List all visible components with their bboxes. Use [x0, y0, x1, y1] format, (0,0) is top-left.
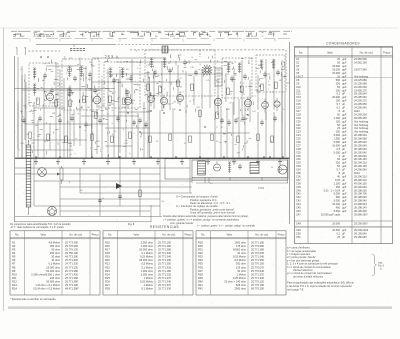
- svg-text:R41: R41: [198, 283, 203, 287]
- svg-text:R30: R30: [198, 244, 203, 248]
- svg-text:24.771.330: 24.771.330: [65, 262, 79, 266]
- resistor R15: [29, 132, 32, 139]
- svg-text:Grande alternância selectivité: Grande alternância selectivité máxima; p…: [163, 214, 249, 218]
- svg-text:R24: R24: [105, 272, 110, 276]
- svg-text:C3: C3: [296, 64, 300, 68]
- svg-text:26.771.230: 26.771.230: [158, 272, 172, 276]
- capacitor C13: [230, 77, 234, 79]
- svg-text:200: 200: [89, 62, 92, 64]
- svg-text:20 ohm + 240 ohm: 20 ohm + 240 ohm: [224, 280, 246, 284]
- resistor R12: [241, 86, 244, 93]
- svg-text:C28: C28: [296, 147, 301, 151]
- svg-text:5.000: 5.000: [334, 209, 341, 213]
- svg-text:49.095.250: 49.095.250: [354, 116, 367, 120]
- svg-text:0,5 Mohm: 0,5 Mohm: [234, 258, 246, 262]
- svg-text:Preço: Preço: [383, 50, 391, 54]
- resistor R3: [69, 100, 72, 107]
- resistor R14: [275, 82, 278, 89]
- capacitor C3: [73, 77, 77, 79]
- svg-text:C37: C37: [296, 178, 301, 182]
- svg-text:1 Mohm: 1 Mohm: [144, 283, 153, 287]
- capacitor C11: [183, 61, 187, 63]
- coil L1a: [33, 67, 36, 69]
- svg-text:50 ohm: 50 ohm: [51, 255, 60, 259]
- svg-text:µF: µF: [342, 147, 345, 151]
- tube V4: [148, 96, 155, 103]
- svg-text:µµF: µµF: [342, 68, 347, 72]
- svg-text:2.000 ohm: 2.000 ohm: [141, 240, 153, 244]
- resistor R23: [189, 136, 192, 143]
- svg-text:8: 8: [69, 182, 70, 184]
- page bottom edge band: [8, 306, 392, 309]
- svg-text:R42: R42: [198, 287, 203, 291]
- svg-text:µµF: µµF: [342, 85, 347, 89]
- svg-text:25.750.196: 25.750.196: [65, 251, 79, 255]
- svg-text:R35: R35: [198, 262, 203, 266]
- svg-text:R4: R4: [12, 251, 16, 255]
- svg-text:µµF: µµF: [342, 206, 347, 210]
- svg-text:C20: C20: [296, 119, 301, 123]
- svg-text:50000 ohm: 50000 ohm: [233, 248, 246, 252]
- svg-text:5,7: 5,7: [336, 168, 340, 172]
- svg-text:C36: C36: [296, 175, 301, 179]
- rectifier tube V11: [214, 164, 221, 171]
- svg-text:25.771.280: 25.771.280: [251, 248, 265, 252]
- svg-text:No.: No.: [108, 233, 112, 237]
- capacitor C27: [234, 119, 238, 121]
- svg-text:25.771.180: 25.771.180: [158, 269, 172, 273]
- svg-text:µF: µF: [342, 109, 345, 113]
- capacitor C9: [153, 71, 157, 73]
- svg-text:Voir bobinag.: Voir bobinag.: [354, 123, 369, 127]
- svg-text:k: k: [134, 133, 135, 135]
- svg-text:C50: C50: [296, 232, 301, 236]
- svg-text:C42: C42: [296, 195, 301, 199]
- svg-text:RESISTENCIAS: RESISTENCIAS: [150, 225, 179, 229]
- svg-text:Para a significação das indica: Para a significação das indicações autom…: [287, 281, 355, 285]
- svg-text:250: 250: [336, 161, 341, 165]
- svg-text:20.000: 20.000: [332, 95, 340, 99]
- svg-text:No. de cód.: No. de cód.: [69, 233, 83, 237]
- svg-text:3: 3: [34, 103, 35, 105]
- svg-text:Voir bobinag.: Voir bobinag.: [354, 126, 369, 130]
- long wiring verticals: [18, 57, 282, 158]
- svg-text:25.770.080: 25.770.080: [251, 244, 265, 248]
- svg-text:R17: R17: [105, 248, 110, 252]
- svg-text:25.770.040: 25.770.040: [251, 269, 265, 273]
- resistor R29: [216, 112, 219, 119]
- svg-text:28.196.140: 28.196.140: [354, 157, 367, 161]
- strip dark blobs: [16, 32, 287, 35]
- power unit lower rails: [192, 180, 288, 182]
- svg-text:65.000 ohm: 65.000 ohm: [139, 258, 153, 262]
- svg-text:2704: 2704: [258, 186, 264, 190]
- capacitor C19: [84, 123, 88, 125]
- svg-text:2.000 ohms/5.000 1 ohm: 2.000 ohms/5.000 1 ohm: [31, 272, 60, 276]
- svg-text:25.771.180: 25.771.180: [158, 244, 172, 248]
- svg-text:28.198.140: 28.198.140: [354, 206, 367, 210]
- svg-text:6924: 6924: [354, 109, 360, 113]
- svg-text:28.198.700: 28.198.700: [354, 192, 367, 196]
- svg-text:R12: R12: [12, 280, 17, 284]
- svg-text:25.770.100: 25.770.100: [251, 262, 265, 266]
- svg-text:* Resistencias a escolher em: * Resistencias a escolher em derivação.: [10, 297, 56, 301]
- svg-text:R7: R7: [12, 262, 16, 266]
- svg-text:50.000 ohm: 50.000 ohm: [139, 248, 153, 252]
- coil L5a: [227, 62, 230, 64]
- tone capacitor C40: [118, 195, 122, 197]
- svg-text:µµF: µµF: [342, 130, 347, 134]
- condensadores rows: [296, 57, 369, 239]
- capacitor C25: [220, 119, 224, 121]
- svg-text:R3: R3: [12, 248, 16, 252]
- svg-text:C32: C32: [296, 161, 301, 165]
- svg-text:µµF: µµF: [342, 116, 347, 120]
- svg-text:300 ohm: 300 ohm: [236, 262, 246, 266]
- svg-text:25.771.390: 25.771.390: [65, 283, 79, 287]
- page top edge: [0, 27, 398, 29]
- svg-text:0,25 Mohm: 0,25 Mohm: [140, 280, 153, 284]
- svg-text:25.771.330: 25.771.330: [158, 287, 172, 291]
- svg-text:µµF: µµF: [342, 71, 347, 75]
- svg-text:2: 2: [96, 115, 97, 117]
- capacitor C23: [138, 119, 142, 121]
- svg-text:µF: µF: [342, 92, 345, 96]
- svg-text:25.773.380: 25.773.380: [65, 269, 79, 273]
- svg-text:µµF: µµF: [342, 199, 347, 203]
- capacitor C22: [132, 121, 136, 123]
- svg-text:R2: R2: [12, 244, 16, 248]
- svg-text:do motor d'arraul rélectric: do motor d'arraul rélectrico: [293, 274, 324, 278]
- svg-text:25.771.350: 25.771.350: [251, 258, 265, 262]
- tube V9: [262, 102, 269, 109]
- coil L6b: [272, 59, 275, 61]
- capacitor C12: [194, 71, 198, 73]
- svg-text:25.000 ohm: 25.000 ohm: [46, 265, 60, 269]
- resistor R13: [261, 84, 264, 91]
- svg-text:µµF: µµF: [342, 164, 347, 168]
- left rail verticals: [17, 57, 19, 157]
- resistencias table 1 frame: [10, 231, 100, 295]
- svg-text:28.195.040: 28.195.040: [354, 92, 367, 96]
- svg-text:No.: No.: [299, 50, 303, 54]
- svg-text:µµF: µµF: [342, 78, 347, 82]
- svg-text:µF: µF: [342, 178, 345, 182]
- coil L4a: [150, 57, 153, 59]
- resistor R10: [191, 84, 194, 91]
- shield can L3 dashed box: [104, 62, 140, 108]
- aerial dashed lead-in wire: [28, 50, 60, 52]
- tube V2: [93, 96, 101, 104]
- shield can L1 dashed box: [29, 63, 58, 106]
- svg-text:28.196.210: 28.196.210: [354, 161, 367, 165]
- svg-text:C1: C1: [296, 57, 300, 61]
- svg-text:µµF: µµF: [342, 157, 347, 161]
- svg-text:«— position „quarto“ e «— posi: «— position „quarto“ e «— position „anti…: [197, 225, 256, 228]
- svg-text:25.771.380: 25.771.380: [65, 276, 79, 280]
- svg-text:µµF: µµF: [342, 161, 347, 165]
- svg-text:5.000 ohm: 5.000 ohm: [141, 272, 153, 276]
- svg-text:µF: µF: [342, 154, 345, 158]
- svg-text:C11: C11: [296, 88, 301, 92]
- svg-text:28.195.040: 28.195.040: [354, 147, 367, 151]
- svg-text:400: 400: [336, 185, 341, 189]
- capacitor C29: [260, 121, 264, 123]
- tube V10: [274, 101, 280, 107]
- capacitor C31: [22, 119, 26, 121]
- svg-text:28.195.040: 28.195.040: [354, 143, 367, 147]
- resistencias table 1 rows: [12, 240, 79, 290]
- svg-text:25.770.065: 25.770.065: [65, 244, 79, 248]
- svg-text:0,1 Mohm: 0,1 Mohm: [141, 265, 153, 269]
- svg-text:25.771.370: 25.771.370: [251, 272, 265, 276]
- svg-text:µµF: µµF: [342, 133, 347, 137]
- svg-text:No. de cód.: No. de cód.: [255, 233, 269, 237]
- svg-text:58.770.250: 58.770.250: [251, 287, 265, 291]
- svg-text:2000 ohm: 2000 ohm: [234, 287, 246, 291]
- svg-text:25.770.190: 25.770.190: [158, 240, 172, 244]
- capacitor C16: [276, 71, 280, 73]
- svg-text:µµF: µµF: [342, 202, 347, 206]
- resistor R11: [227, 88, 230, 95]
- capacitor C18: [70, 117, 74, 119]
- svg-text:4,9 Mohm: 4,9 Mohm: [48, 240, 60, 244]
- svg-text:50: 50: [59, 114, 61, 116]
- svg-text:25.771.230: 25.771.230: [65, 265, 79, 269]
- resistor R9: [177, 80, 180, 87]
- filter choke L12: [228, 161, 231, 163]
- svg-text:R1: R1: [12, 240, 16, 244]
- svg-text:10.000: 10.000: [332, 202, 340, 206]
- strip tick marks: [29, 38, 31, 41]
- svg-text:26.771.330: 26.771.330: [158, 251, 172, 255]
- svg-text:µF: µF: [342, 235, 345, 239]
- svg-text:25.771.350: 25.771.350: [158, 262, 172, 266]
- svg-text:µµF: µµF: [342, 195, 347, 199]
- svg-text:28.198.040: 28.198.040: [354, 195, 367, 199]
- svg-text:C33: C33: [296, 164, 301, 168]
- svg-text:C9: C9: [296, 81, 300, 85]
- svg-text:R33: R33: [198, 255, 203, 259]
- svg-text:R40: R40: [198, 280, 203, 284]
- svg-text:R22: R22: [203, 172, 206, 174]
- svg-text:R38: R38: [198, 272, 203, 276]
- page left edge: [3, 28, 5, 311]
- svg-text:25.771.370: 25.771.370: [158, 276, 172, 280]
- svg-text:29.239.e024: 29.239.e024: [354, 228, 369, 232]
- svg-text:R10: R10: [12, 272, 17, 276]
- svg-text:R39: R39: [198, 276, 203, 280]
- shield can L2 dashed box: [62, 59, 99, 110]
- svg-text:28.196.130: 28.196.130: [354, 164, 367, 168]
- capacitor C32: [38, 117, 42, 119]
- svg-text:200: 200: [336, 81, 341, 85]
- capacitor C30: [273, 117, 277, 119]
- tube V1: [46, 93, 53, 100]
- svg-text:28.196.040: 28.196.040: [354, 185, 367, 189]
- oscillator shield box dashed: [145, 50, 215, 96]
- svg-text:25.771.800: 25.771.800: [65, 258, 79, 262]
- svg-text:µµF: µµF: [342, 112, 347, 116]
- svg-text:50.000 ohm: 50.000 ohm: [46, 280, 60, 284]
- svg-text:1.200: 1.200: [334, 116, 341, 120]
- switch bank S strip baseline: [11, 30, 17, 32]
- svg-text:R22: R22: [105, 265, 110, 269]
- svg-text:C31: C31: [296, 157, 301, 161]
- resistencias table 3 rows: [198, 240, 265, 290]
- svg-text:49.471.380*: 49.471.380*: [65, 287, 79, 291]
- svg-text:C13: C13: [296, 95, 301, 99]
- svg-text:25.773.390: 25.773.390: [65, 240, 79, 244]
- svg-text:Voir bobinag.: Voir bobinag.: [354, 119, 369, 123]
- svg-text:R28: R28: [105, 287, 110, 291]
- svg-text:R13: R13: [12, 283, 17, 287]
- svg-text:50: 50: [271, 167, 273, 169]
- junction dots: [35, 56, 284, 158]
- svg-text:Valor: Valor: [40, 233, 46, 237]
- svg-text:25.770.030: 25.770.030: [251, 251, 265, 255]
- svg-text:No.: No.: [201, 233, 205, 237]
- svg-text:4: 4: [137, 68, 138, 70]
- capacitor C7: [129, 77, 133, 79]
- svg-text:25.771.290: 25.771.290: [158, 258, 172, 262]
- resistor R27: [271, 136, 274, 143]
- svg-text:µµF: µµF: [342, 75, 347, 79]
- svg-text:50.000 ohm: 50.000 ohm: [46, 269, 60, 273]
- svg-text:R36: R36: [198, 265, 203, 269]
- svg-text:25.770.120: 25.770.120: [251, 280, 265, 284]
- svg-text:µµF: µµF: [342, 119, 347, 123]
- svg-text:23.495.270: 23.495.270: [354, 88, 367, 92]
- svg-text:R26: R26: [105, 280, 110, 284]
- tuning scale ladder: [26, 145, 31, 207]
- svg-text:50 ohm: 50 ohm: [237, 269, 246, 273]
- volume potentiometer: [60, 168, 63, 180]
- loudspeaker: [278, 165, 287, 174]
- resistor R20: [129, 132, 132, 139]
- svg-text:C40: C40: [296, 188, 301, 192]
- svg-text:0,5: 0,5: [112, 134, 115, 136]
- svg-text:20.000: 20.000: [332, 228, 340, 232]
- svg-text:R34: R34: [198, 258, 203, 262]
- capacitor C21: [116, 117, 120, 119]
- svg-text:25.771.280: 25.771.280: [158, 248, 172, 252]
- svg-text:C45: C45: [296, 206, 301, 210]
- svg-text:0,05: 0,05: [335, 178, 341, 182]
- svg-text:µF: µF: [342, 232, 345, 236]
- svg-text:175 ohm: 175 ohm: [236, 244, 246, 248]
- resistencias table 2 frame: [103, 231, 193, 295]
- svg-text:5.000: 5.000: [334, 199, 341, 203]
- svg-text:24.295.230: 24.295.230: [354, 112, 367, 116]
- svg-text:C12: C12: [296, 92, 301, 96]
- power unit outline box: [165, 159, 288, 179]
- svg-text:29.295.060*: 29.295.060*: [354, 222, 368, 226]
- svg-text:15: 15: [85, 78, 87, 80]
- svg-text:Preço: Preço: [92, 233, 99, 237]
- chassis ground bus heavy: [15, 157, 290, 159]
- svg-text:5,7: 5,7: [336, 102, 340, 106]
- resistor R28: [199, 110, 202, 117]
- svg-text:1 Mohm: 1 Mohm: [237, 272, 246, 276]
- svg-text:a: a: [262, 98, 263, 100]
- svg-text:0,5 M ohm + 0,5 Mohm: 0,5 M ohm + 0,5 Mohm: [33, 287, 60, 291]
- svg-text:5: 5: [225, 75, 226, 77]
- svg-text:240: 240: [87, 107, 90, 109]
- svg-text:753 A: 753 A: [105, 54, 120, 59]
- svg-text:µµF: µµF: [342, 57, 347, 61]
- svg-text:R8: R8: [12, 265, 16, 269]
- lower horizontal wires: [15, 167, 190, 169]
- resistencias table 2 rows: [105, 240, 172, 290]
- svg-text:25.771.380: 25.771.380: [65, 280, 79, 284]
- svg-text:Valor: Valor: [133, 233, 139, 237]
- terminal strip element: [162, 46, 168, 53]
- chassis frame left wire: [14, 56, 16, 222]
- capacitor C6: [112, 79, 116, 81]
- capacitor C5: [93, 89, 97, 91]
- svg-text:CONDENSADORES: CONDENSADORES: [326, 42, 360, 46]
- svg-text:µµF: µµF: [342, 64, 347, 68]
- dial drive lamp: [38, 168, 47, 177]
- resistor R22: [169, 134, 172, 141]
- svg-text:Preço: Preço: [278, 233, 285, 237]
- component value labels: [20, 63, 285, 145]
- svg-text:µµF: µµF: [342, 61, 347, 65]
- svg-text:25.000: 25.000: [332, 222, 340, 226]
- svg-text:C34: C34: [296, 168, 301, 172]
- svg-text:Voir bobinag.: Voir bobinag.: [354, 130, 369, 134]
- capacitor C8: [125, 91, 129, 93]
- svg-text:100: 100: [132, 100, 135, 102]
- svg-text:µF: µF: [342, 102, 345, 106]
- capacitor C4: [88, 73, 92, 75]
- svg-text:C40: C40: [161, 201, 164, 203]
- right rail verticals: [284, 92, 286, 157]
- svg-text:µµF: µµF: [342, 99, 347, 103]
- svg-text:0,25 Mohm: 0,25 Mohm: [233, 255, 246, 259]
- svg-text:24.082.500: 24.082.500: [354, 57, 367, 61]
- svg-text:12: 12: [189, 101, 191, 103]
- svg-text:100: 100: [336, 130, 341, 134]
- svg-text:R21: R21: [105, 262, 110, 266]
- svg-text:1.200: 1.200: [334, 181, 341, 185]
- power transformer T10: [198, 161, 206, 175]
- svg-text:28.195.400: 28.195.400: [354, 209, 367, 213]
- svg-text:C15: C15: [296, 102, 301, 106]
- svg-text:0,1: 0,1: [336, 232, 340, 236]
- capacitor C14: [243, 75, 247, 77]
- svg-text:28.198.230: 28.198.230: [354, 188, 367, 192]
- svg-text:10 ohm: 10 ohm: [51, 258, 60, 262]
- svg-text:C47: C47: [296, 212, 301, 216]
- svg-text:50 ohm: 50 ohm: [51, 248, 60, 252]
- svg-text:R37: R37: [198, 269, 203, 273]
- svg-text:28.195.040: 28.195.040: [354, 95, 367, 99]
- svg-text:R25: R25: [105, 276, 110, 280]
- svg-text:C22: C22: [296, 126, 301, 130]
- svg-text:C19: C19: [296, 116, 301, 120]
- svg-text:µF: µF: [342, 171, 345, 175]
- svg-text:24.082.100: 24.082.100: [354, 61, 367, 65]
- svg-text:28.195.040: 28.195.040: [354, 140, 367, 144]
- svg-text:µµF: µµF: [342, 181, 347, 185]
- svg-text:125: 125: [267, 74, 270, 76]
- resistor R26: [257, 134, 260, 141]
- svg-text:C6/C7: C6/C7: [296, 75, 304, 79]
- svg-text:Fig. 8: Fig. 8: [128, 223, 135, 226]
- svg-text:125 ohm: 125 ohm: [236, 265, 246, 269]
